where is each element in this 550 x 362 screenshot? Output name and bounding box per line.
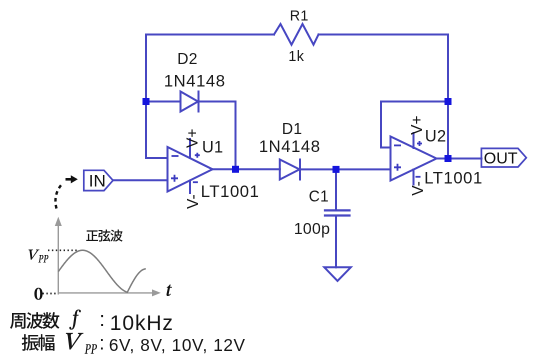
svg-text:D1: D1: [282, 121, 302, 138]
svg-text:V+: V+: [409, 116, 426, 135]
svg-text:U1: U1: [202, 138, 223, 156]
svg-text:V+: V+: [185, 129, 202, 148]
svg-text:D2: D2: [177, 51, 197, 68]
svg-text:V-: V-: [185, 194, 202, 209]
svg-text:100p: 100p: [294, 221, 330, 238]
svg-text:LT1001: LT1001: [424, 169, 483, 188]
svg-text:1N4148: 1N4148: [164, 72, 226, 91]
svg-text::: :: [99, 334, 104, 355]
svg-text:1k: 1k: [288, 49, 304, 65]
svg-text:1N4148: 1N4148: [259, 137, 321, 156]
svg-text::: :: [99, 308, 105, 331]
svg-text:LT1001: LT1001: [201, 182, 260, 201]
svg-text:C1: C1: [309, 189, 329, 206]
svg-text:6V, 8V, 10V, 12V: 6V, 8V, 10V, 12V: [109, 335, 246, 355]
svg-text:IN: IN: [89, 171, 106, 190]
svg-text:R1: R1: [290, 8, 309, 24]
svg-text:OUT: OUT: [484, 151, 518, 168]
svg-text:U2: U2: [425, 127, 446, 145]
svg-text:10kHz: 10kHz: [110, 312, 174, 335]
